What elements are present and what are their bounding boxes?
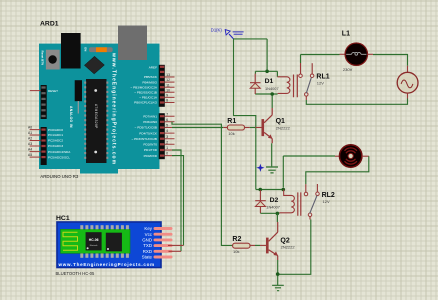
junction dot D2 anode — [259, 188, 263, 192]
node D1 bottom rail — [255, 93, 277, 95]
voltage probe D1(K) — [225, 30, 243, 39]
svg-text:A5: A5 — [28, 153, 32, 157]
motor right lead — [362, 155, 369, 157]
wire AC to RL1 common — [306, 99, 407, 105]
svg-text:HC1: HC1 — [56, 215, 70, 222]
svg-text:~ PD5/T1/OC0B: ~ PD5/T1/OC0B — [135, 126, 157, 130]
junction dot Q2 emitter — [276, 272, 280, 276]
svg-text:~ PB2/SS/OC1B: ~ PB2/SS/OC1B — [134, 91, 157, 95]
wire to Q2 collector — [276, 213, 278, 222]
svg-text:D1: D1 — [265, 78, 274, 85]
wire down to D1 node — [266, 39, 268, 71]
lamp L1 — [345, 43, 367, 65]
arduino ON led — [89, 47, 113, 52]
svg-text:PD1/TXD: PD1/TXD — [144, 148, 158, 152]
wire RL2 common to Q2 emitter node — [278, 220, 311, 275]
right pin stubs lower — [165, 116, 175, 155]
svg-text:Vcc: Vcc — [145, 232, 153, 237]
RL2 switch contacts — [304, 184, 319, 220]
svg-text:230V: 230V — [343, 67, 353, 72]
svg-text:ARDUINO UNO R3: ARDUINO UNO R3 — [40, 174, 79, 179]
svg-text:5: 5 — [166, 124, 168, 128]
transistor Q2 — [266, 222, 278, 260]
D2 bottom rail — [260, 212, 279, 214]
svg-text:11: 11 — [166, 83, 170, 87]
wire pin6 to R2 — [172, 122, 233, 246]
relay RL1 coil — [277, 77, 290, 94]
svg-text:Bluetooth: Bluetooth — [90, 244, 98, 247]
svg-text:2: 2 — [166, 140, 168, 144]
svg-text:~ PB3/MOSI/OC2A: ~ PB3/MOSI/OC2A — [130, 85, 158, 89]
svg-text:www.TheEngineeringProjects.com: www.TheEngineeringProjects.com — [58, 262, 155, 267]
reset stub wire — [30, 90, 41, 92]
svg-text:ATMEGA328P: ATMEGA328P — [94, 104, 98, 129]
svg-text:4: 4 — [166, 129, 168, 133]
svg-text:7: 7 — [166, 112, 168, 116]
arduino left power strip — [41, 85, 47, 119]
svg-text:PD4/T0/XCK: PD4/T0/XCK — [139, 131, 158, 135]
wire HC TXD stub — [168, 244, 184, 246]
svg-text:2N2222: 2N2222 — [281, 245, 296, 250]
svg-text:0: 0 — [166, 152, 168, 156]
svg-text:13: 13 — [166, 73, 170, 77]
svg-text:D2: D2 — [270, 197, 279, 204]
svg-text:RESET: RESET — [48, 89, 58, 93]
svg-text:1N4007: 1N4007 — [266, 205, 280, 210]
svg-text:1: 1 — [166, 146, 168, 150]
svg-text:12: 12 — [166, 78, 170, 82]
svg-text:10: 10 — [166, 88, 170, 92]
HC1 antenna zigzag — [63, 232, 78, 250]
svg-text:A3: A3 — [28, 142, 32, 146]
HC1 bluetooth board — [57, 222, 161, 268]
svg-text:1N4007: 1N4007 — [265, 86, 279, 91]
svg-text:Key: Key — [144, 226, 152, 231]
svg-text:L1: L1 — [342, 31, 350, 38]
HC1 salmon pin pads — [154, 227, 173, 258]
relay RL2 core — [298, 192, 301, 215]
svg-text:BLUETOOTH HC-05: BLUETOOTH HC-05 — [56, 271, 95, 276]
junction dot D1 top — [265, 70, 269, 74]
lamp left lead — [340, 53, 346, 55]
HC1 pads top and bottom — [80, 225, 129, 258]
ground under Q1 — [266, 167, 278, 173]
svg-text:HC-06: HC-06 — [89, 238, 99, 242]
svg-text:D1(K): D1(K) — [211, 27, 223, 32]
svg-text:PB0/ICP1/CLKO: PB0/ICP1/CLKO — [134, 101, 157, 105]
arduino crystal — [75, 80, 82, 113]
svg-text:~ PD3/INT1/OC2B: ~ PD3/INT1/OC2B — [131, 137, 157, 141]
wire probe down left column — [234, 39, 256, 190]
svg-text:PD7/AIN1: PD7/AIN1 — [143, 114, 157, 118]
svg-text:TXD: TXD — [143, 243, 152, 248]
svg-text:10k: 10k — [233, 249, 239, 254]
arduino left analog strip — [41, 127, 47, 165]
svg-text:Reset BTN: Reset BTN — [41, 51, 45, 66]
svg-text:A1: A1 — [28, 131, 32, 135]
svg-text:PB4/MISO: PB4/MISO — [142, 80, 157, 84]
svg-text:www.TheEngineeringProjects.com: www.TheEngineeringProjects.com — [110, 52, 116, 165]
svg-text:AREF: AREF — [149, 65, 157, 69]
wire pin5 to R1 — [172, 127, 223, 129]
svg-text:PC0/ADC0: PC0/ADC0 — [48, 128, 63, 132]
wire motor to RL2 — [306, 156, 369, 184]
AC top lead — [407, 66, 409, 73]
RL1 lever — [306, 77, 311, 93]
wire pin0 to HC TXD — [172, 156, 184, 246]
svg-text:ON: ON — [84, 47, 88, 51]
AC source V1 — [397, 72, 418, 93]
junction dot D1 bottom — [270, 92, 274, 96]
svg-text:ARD1: ARD1 — [40, 20, 59, 27]
svg-text:GND: GND — [142, 238, 152, 243]
wire lamp to AC source — [373, 55, 408, 66]
analog pin stubs — [30, 130, 41, 158]
svg-text:RL2: RL2 — [322, 192, 335, 199]
junction dot motor branch — [282, 188, 286, 192]
svg-text:ANALOG IN: ANALOG IN — [69, 106, 73, 128]
wire R1 to Q1 base — [250, 127, 256, 129]
arduino right pin strip upper — [159, 65, 165, 107]
HC1 chip HC-06 — [86, 232, 102, 250]
wire R2 to Q2 base — [255, 244, 260, 246]
svg-text:PD6/AIN0: PD6/AIN0 — [143, 120, 157, 124]
AC bottom lead — [407, 93, 409, 98]
RL2 NC lead — [305, 184, 307, 192]
svg-text:3: 3 — [166, 135, 168, 139]
node D1 top rail — [255, 70, 277, 72]
wire Q1 emitter to ground — [271, 143, 273, 166]
RL1 switch contacts — [299, 63, 314, 100]
arduino ATmega chip — [84, 79, 108, 163]
arduino USB connector — [118, 26, 147, 61]
blue marker diamond — [256, 164, 264, 172]
resistor R1 — [223, 125, 250, 130]
svg-text:PC5/ADC5/SCL: PC5/ADC5/SCL — [48, 155, 70, 159]
svg-text:~ PB1/OC1A: ~ PB1/OC1A — [139, 96, 158, 100]
svg-text:PD2/INT0: PD2/INT0 — [143, 143, 157, 147]
svg-text:RXD: RXD — [143, 249, 152, 254]
arduino black diamond component — [84, 56, 104, 74]
HC1 chip 2 — [106, 233, 122, 252]
svg-text:R1: R1 — [227, 118, 236, 125]
D2 top rail — [256, 189, 283, 191]
wire pin1 to HC RXD — [172, 150, 181, 251]
svg-text:A0: A0 — [28, 126, 32, 130]
svg-text:12V: 12V — [323, 199, 330, 204]
junction dot Q2 collector — [276, 212, 280, 216]
arduino barrel jack — [61, 33, 81, 69]
resistor R2 — [233, 243, 255, 248]
svg-text:8: 8 — [166, 99, 168, 103]
motor M1 — [340, 145, 362, 167]
right pin stubs upper — [165, 77, 175, 103]
svg-text:10k: 10k — [228, 131, 234, 136]
svg-text:R2: R2 — [232, 236, 241, 243]
svg-text:Q2: Q2 — [280, 238, 289, 245]
svg-text:6: 6 — [166, 118, 168, 122]
relay RL2 coil — [279, 190, 294, 213]
arduino reset button — [46, 50, 60, 70]
svg-text:12V: 12V — [317, 80, 324, 85]
diode D2 — [255, 190, 266, 213]
diode D1 — [250, 74, 261, 94]
svg-text:A4: A4 — [28, 148, 32, 152]
svg-text:A2: A2 — [28, 137, 32, 141]
motor left lead — [335, 155, 340, 157]
svg-text:PC3/ADC3: PC3/ADC3 — [48, 144, 63, 148]
svg-text:Q1: Q1 — [276, 118, 285, 125]
transistor Q1 — [262, 108, 273, 143]
lamp circuit top wire — [300, 55, 302, 64]
wire probe to D1 top — [234, 38, 268, 40]
svg-text:PB5/SCK: PB5/SCK — [144, 75, 158, 79]
motor M1 wires — [282, 156, 284, 188]
svg-text:2N2222: 2N2222 — [276, 126, 291, 131]
svg-text:PC1/ADC1: PC1/ADC1 — [48, 133, 63, 137]
lamp right lead — [367, 53, 373, 55]
svg-text:PC2/ADC2: PC2/ADC2 — [48, 139, 63, 143]
arduino right pin strip lower — [159, 113, 165, 159]
svg-text:9: 9 — [166, 94, 168, 98]
HC1 green PCB — [61, 229, 131, 253]
svg-text:PD0/RXD: PD0/RXD — [144, 154, 158, 158]
ground under Q2 — [272, 285, 284, 290]
wire HC RXD stub — [169, 250, 182, 252]
wire Q2 emitter down — [277, 260, 279, 285]
svg-text:State: State — [142, 255, 153, 260]
svg-text:PC4/ADC4/SDA: PC4/ADC4/SDA — [48, 150, 71, 154]
relay RL1 core — [294, 75, 298, 98]
arduino board ARD1 — [39, 44, 160, 174]
RL2 lever — [310, 196, 317, 214]
